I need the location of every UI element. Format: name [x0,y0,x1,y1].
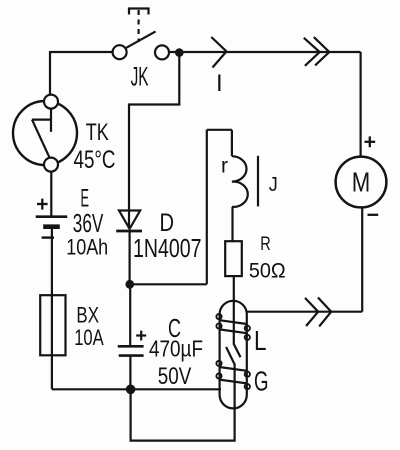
reed switch G capsule [220,301,247,409]
svg-text:J: J [269,174,278,196]
wire right rail upper [360,52,362,157]
reed contact upper [234,344,241,357]
wire top-left horizontal [50,51,113,53]
svg-text:470µF: 470µF [149,336,203,362]
core bar of J [257,156,259,207]
wire left rail upper [49,51,51,95]
node junction top [175,48,184,57]
wire junction to capacitor [129,284,131,346]
wire branch horizontal from diode junction [130,283,207,285]
coil L loop 4 [216,373,250,389]
label motor plus [365,136,376,147]
node junction diode [125,280,134,289]
inductor r (relay J coil) [232,156,248,207]
wire diode to junction [129,231,131,284]
wire capacitor to bottom junction [129,356,131,390]
svg-text:L: L [254,325,267,356]
connector chevrons bottom [305,298,331,327]
wire reed bottom loop [131,389,235,440]
motor M [336,157,387,208]
svg-text:50Ω: 50Ω [249,259,286,282]
svg-text:BX: BX [76,303,99,328]
coil L loop 1 [216,314,250,331]
svg-text:M: M [352,167,371,198]
wire TK to battery [50,172,52,217]
diode D 1N4007 [116,211,142,232]
wire bottom rail [52,388,221,390]
wire motor to lower-right corner [361,207,363,311]
label battery minus [42,236,54,238]
battery E [36,217,67,227]
label motor minus [368,214,379,216]
wire top rail to right [169,51,361,53]
resistor R [225,241,242,276]
svg-text:45°C: 45°C [74,146,116,174]
switch JK [113,31,169,59]
thermostat TK [13,95,77,172]
svg-text:50V: 50V [158,363,192,390]
capacitor C [118,346,144,355]
pushbutton actuator of JK [129,9,149,43]
wire battery to bottom-left corner (through fuse) [51,227,53,390]
wire resistor to reed capsule (upper reed lead) [233,276,235,345]
reed contact lower [226,347,235,408]
wire coil lead [231,130,233,156]
connector chevrons top [304,37,330,66]
svg-text:I: I [216,70,223,97]
svg-text:JK: JK [131,62,149,92]
coil L loop 2 [216,323,250,340]
wire coil to resistor [231,207,233,241]
wire lower horizontal to reed [246,311,362,313]
svg-text:1N4007: 1N4007 [133,233,202,263]
wire branch top horizontal [207,129,232,131]
svg-text:10Ah: 10Ah [66,235,108,260]
label capacitor plus [136,331,146,341]
svg-text:r: r [221,155,228,178]
current arrow I [211,37,226,68]
svg-text:TK: TK [86,119,109,146]
svg-text:G: G [254,366,269,397]
wire branch left vertical [206,130,208,284]
label battery plus [37,199,48,210]
svg-text:R: R [260,234,271,255]
fuse BX [40,295,65,355]
coil L loop 3 [216,361,250,377]
node junction bottom [126,385,136,395]
svg-text:10A: 10A [74,325,104,350]
svg-text:36V: 36V [73,208,104,238]
wire top junction to diode top [129,53,179,229]
